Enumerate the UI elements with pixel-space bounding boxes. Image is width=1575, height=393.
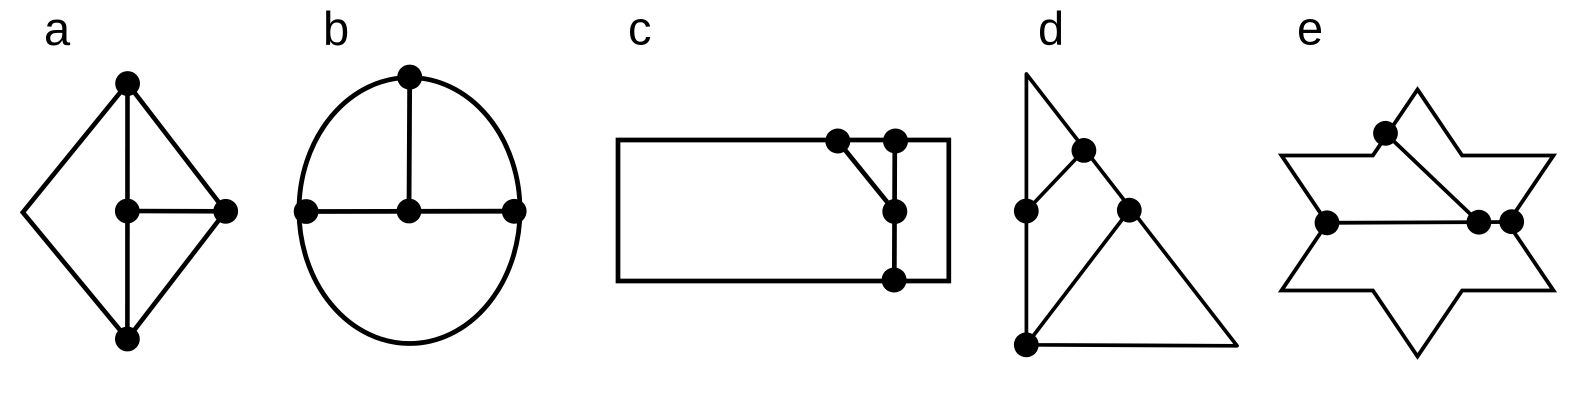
graph d: node left xyxy=(1014,199,1039,224)
graph b: node left xyxy=(294,199,319,224)
graph d: triangle outline xyxy=(1026,74,1237,346)
graph a: node bottom xyxy=(115,327,140,352)
graph c: node bottom xyxy=(882,268,907,293)
graph e: node upper xyxy=(1373,121,1398,146)
graph a: node center xyxy=(115,199,140,224)
graph a: node right xyxy=(213,199,238,224)
graph b: node center xyxy=(397,199,422,224)
svg-text:c: c xyxy=(628,2,652,55)
graph e: diagonal edge xyxy=(1386,133,1479,222)
graph a: vertical edge xyxy=(125,84,130,340)
graph a: horizontal edge xyxy=(127,209,225,214)
graph d: upper chord edge xyxy=(1026,150,1084,211)
svg-text:e: e xyxy=(1297,2,1323,55)
graph e: node right xyxy=(1499,209,1524,234)
graph e: node left xyxy=(1315,210,1340,235)
graph d: node bottom-left xyxy=(1014,332,1039,357)
graph c: node top-left xyxy=(825,129,850,154)
svg-text:b: b xyxy=(323,2,349,55)
graph b: node right xyxy=(502,199,527,224)
graph e: horizontal edge xyxy=(1327,220,1512,225)
graph c: diagonal edge xyxy=(838,141,895,212)
graph b: horizontal edge xyxy=(306,209,514,214)
graph a: node top xyxy=(115,71,140,96)
graph c: node middle xyxy=(882,199,907,224)
graph b: vertical edge xyxy=(407,77,413,211)
svg-text:d: d xyxy=(1038,2,1064,55)
graph d: node upper xyxy=(1072,138,1097,163)
graph c: vertical edge xyxy=(892,140,897,281)
graph b: ellipse outline xyxy=(299,78,520,344)
graph d: node middle xyxy=(1117,198,1142,223)
graph c: node top-right xyxy=(883,129,908,154)
graph b: node top xyxy=(397,65,422,90)
graph e: node inner-right xyxy=(1467,210,1492,235)
graph c: rectangle outline xyxy=(618,140,949,281)
graph e: six-point star outline xyxy=(1282,90,1554,357)
graph a: diamond outline xyxy=(23,84,226,340)
graph d: lower chord edge xyxy=(1026,210,1129,345)
svg-text:a: a xyxy=(44,2,71,55)
